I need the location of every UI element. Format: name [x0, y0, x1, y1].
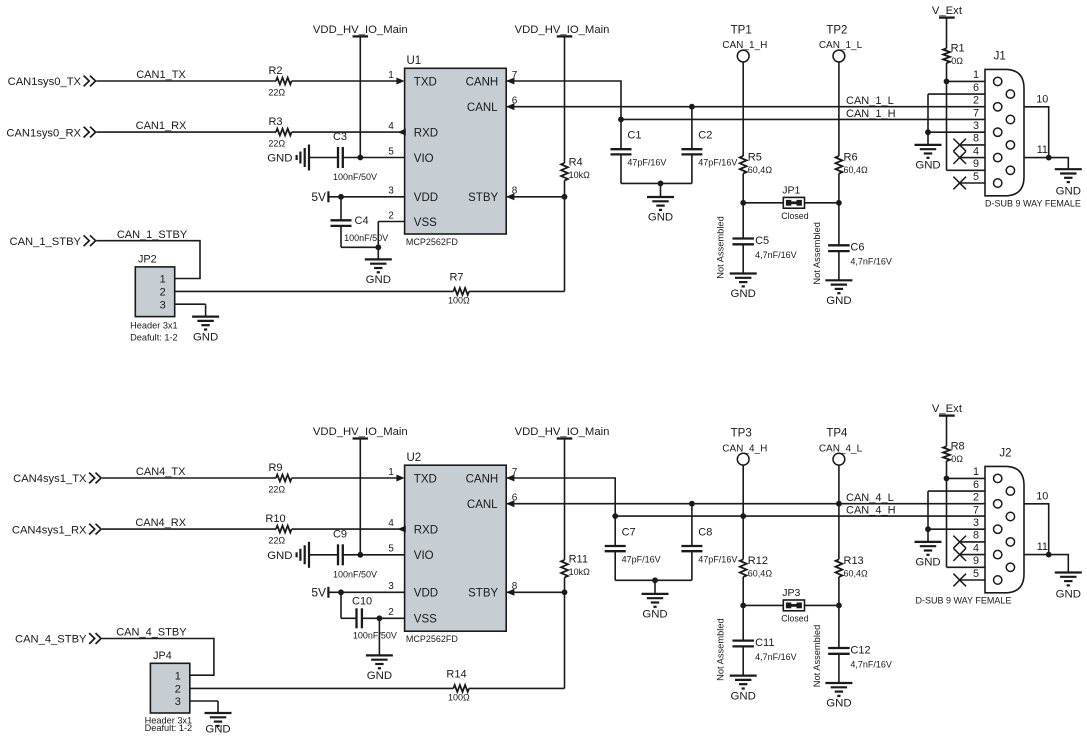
capacitor C5 4,7nF/16V (Not Assembled)	[716, 203, 797, 279]
svg-text:22Ω: 22Ω	[268, 485, 285, 495]
svg-text:CAN_4_L: CAN_4_L	[846, 492, 894, 504]
svg-text:U2: U2	[407, 452, 422, 464]
svg-text:GND: GND	[366, 274, 391, 286]
ground (VSS)	[366, 618, 393, 682]
wire 5V to VDD pin	[328, 196, 404, 198]
junction 5V node	[338, 194, 344, 200]
svg-text:R13: R13	[844, 555, 864, 567]
capacitor C12 4,7nF/16V (Not Assembled)	[812, 605, 892, 687]
svg-text:C2: C2	[698, 130, 712, 142]
svg-text:C12: C12	[850, 644, 870, 656]
svg-text:8: 8	[973, 133, 979, 145]
wire gnd to cap	[309, 554, 338, 556]
svg-text:5V: 5V	[311, 586, 326, 600]
header JP2 3x1	[130, 254, 178, 343]
junction CANH node	[618, 117, 624, 123]
svg-text:CAN4sys1_RX: CAN4sys1_RX	[12, 524, 87, 536]
wire jumper to R ser	[175, 290, 454, 292]
svg-text:4: 4	[388, 518, 394, 529]
resistor R1 0Ω	[943, 43, 965, 66]
wire jumper to R ser	[190, 687, 454, 689]
junction 5V node	[338, 589, 344, 595]
svg-text:4,7nF/16V: 4,7nF/16V	[850, 257, 892, 267]
svg-text:C6: C6	[850, 242, 864, 254]
svg-text:GND: GND	[193, 331, 218, 343]
svg-text:GND: GND	[826, 698, 851, 710]
wire CANH	[506, 478, 615, 516]
wire pin3	[928, 131, 985, 133]
capacitor C6 4,7nF/16V (Not Assembled)	[812, 203, 892, 285]
svg-text:1: 1	[175, 670, 181, 682]
ground (filter caps)	[642, 580, 669, 620]
svg-text:GND: GND	[267, 550, 292, 562]
svg-text:VSS: VSS	[414, 614, 437, 626]
test point TP3	[722, 428, 767, 465]
wire JP pin3	[190, 701, 218, 713]
svg-text:TXD: TXD	[414, 76, 437, 88]
svg-text:U1: U1	[407, 55, 422, 67]
svg-text:RXD: RXD	[414, 525, 438, 537]
svg-text:11: 11	[1037, 144, 1048, 156]
svg-text:10kΩ: 10kΩ	[569, 567, 591, 577]
wire R to RXD	[292, 131, 405, 133]
wire TP3 to R	[742, 465, 744, 559]
svg-text:3: 3	[388, 581, 394, 592]
wire R pull-up to STBY	[564, 577, 566, 592]
ground (term cap L)	[825, 683, 852, 710]
svg-text:CAN1_RX: CAN1_RX	[136, 120, 187, 132]
svg-text:6: 6	[973, 479, 979, 491]
svg-text:CANL: CANL	[467, 499, 498, 511]
resistor R13 60,4Ω	[836, 555, 869, 579]
wire R to RXD	[292, 528, 405, 530]
connector J1 D-SUB 9 WAY FEMALE	[985, 50, 1081, 208]
svg-text:CANH: CANH	[466, 76, 499, 88]
capacitor C2 47pF/16V	[681, 107, 737, 184]
svg-text:4,7nF/16V: 4,7nF/16V	[850, 659, 892, 669]
svg-text:0Ω: 0Ω	[951, 56, 963, 66]
wire rail CAN_1_L	[506, 95, 985, 107]
wire VSS pin	[378, 222, 404, 248]
ground (J1 shield)	[1055, 169, 1082, 197]
wire pin11	[1024, 541, 1068, 572]
svg-text:4: 4	[973, 145, 979, 157]
svg-text:CAN_1_STBY: CAN_1_STBY	[9, 236, 81, 248]
port CAN4sys1_RX	[12, 524, 101, 537]
capacitor C4 100nF/50V	[331, 197, 389, 248]
wire CANH	[506, 81, 621, 119]
power VDD_HV_IO_Main	[313, 426, 408, 555]
no-connect pin5	[953, 574, 985, 587]
capacitor C7 47pF/16V	[605, 516, 661, 580]
junction caps common	[658, 181, 664, 187]
junction TP L rail	[836, 501, 842, 507]
junction VSS node	[375, 244, 381, 250]
svg-text:10kΩ: 10kΩ	[569, 170, 591, 180]
power V_Ext	[932, 5, 963, 48]
svg-text:4,7nF/16V: 4,7nF/16V	[755, 250, 797, 260]
header JP4 3x1	[145, 650, 193, 733]
wire net CAN_1_STBY	[97, 229, 201, 279]
svg-text:CANH: CANH	[466, 473, 499, 485]
junction VIO node	[357, 155, 363, 161]
wire STBY down to R ser	[564, 592, 566, 688]
svg-text:60,4Ω: 60,4Ω	[748, 569, 773, 579]
svg-text:MCP2562FD: MCP2562FD	[406, 237, 459, 247]
test point TP4	[819, 428, 863, 465]
wire R vext to pin1	[946, 461, 948, 478]
junction term H	[740, 603, 746, 609]
ground (filter caps)	[647, 183, 674, 223]
capacitor C9 100nF/50V	[333, 528, 377, 579]
ground (JP pin3)	[192, 317, 219, 344]
svg-text:CAN4_TX: CAN4_TX	[136, 466, 186, 478]
svg-text:47pF/16V: 47pF/16V	[627, 158, 666, 168]
svg-text:5V: 5V	[311, 190, 326, 204]
op-amp transceiver U2 MCP2562FD	[388, 452, 518, 644]
wire pin6	[928, 491, 985, 529]
svg-text:8: 8	[973, 530, 979, 542]
wire R term to jumper	[742, 577, 744, 606]
svg-text:3: 3	[973, 120, 979, 132]
svg-text:5: 5	[973, 171, 979, 183]
ground (J2 pins 3,6)	[915, 529, 942, 568]
svg-text:3: 3	[160, 299, 166, 311]
wire TP2 to R	[838, 62, 840, 156]
svg-text:1: 1	[160, 274, 166, 286]
svg-text:R12: R12	[748, 555, 768, 567]
junction pin3 gnd	[925, 129, 931, 135]
svg-text:CAN_4_STBY: CAN_4_STBY	[15, 634, 87, 646]
svg-text:CAN_4_H: CAN_4_H	[846, 505, 896, 517]
resistor R6 60,4Ω	[836, 151, 869, 175]
no-connect pin4	[953, 548, 985, 561]
svg-text:J2: J2	[999, 447, 1011, 459]
svg-text:Not Assembled: Not Assembled	[812, 625, 822, 688]
no-connect pin5	[953, 177, 985, 190]
ground (term cap H)	[730, 274, 757, 301]
wire cap to VIO pin	[343, 554, 405, 556]
svg-text:JP1: JP1	[782, 185, 800, 197]
svg-text:2: 2	[388, 210, 394, 221]
resistor R4 10kΩ	[561, 157, 590, 181]
svg-text:22Ω: 22Ω	[268, 139, 285, 149]
svg-text:TP2: TP2	[826, 25, 847, 37]
svg-text:2: 2	[973, 95, 979, 107]
wire STBY pin	[506, 196, 564, 198]
wire pin9	[947, 566, 986, 568]
resistor R2 22Ω	[268, 65, 291, 98]
junction STBY node	[562, 589, 568, 595]
no-connect pin8	[953, 139, 985, 152]
svg-text:C9: C9	[333, 528, 347, 540]
svg-text:GND: GND	[205, 724, 230, 736]
svg-text:Not Assembled: Not Assembled	[716, 216, 726, 279]
svg-text:CAN_4_STBY: CAN_4_STBY	[116, 627, 187, 639]
wire pin6	[928, 94, 985, 132]
junction TP H rail	[740, 513, 746, 519]
junction CANH node	[612, 513, 618, 519]
wire Vext bus pin1-pin9	[946, 478, 948, 567]
capacitor C8 47pF/16V	[681, 504, 737, 581]
svg-text:0Ω: 0Ω	[951, 454, 963, 464]
svg-text:MCP2562FD: MCP2562FD	[406, 634, 459, 644]
ground (VIO cap)	[267, 145, 309, 171]
svg-text:GND: GND	[915, 160, 940, 172]
test point TP1	[722, 25, 767, 62]
svg-text:C8: C8	[698, 526, 712, 538]
wire net CAN1_RX	[97, 120, 277, 132]
wire caps common	[621, 182, 692, 184]
capacitor C10 100nF/50V	[341, 592, 397, 640]
wire jumper	[743, 202, 839, 204]
port CAN4sys1_TX	[13, 473, 101, 486]
svg-text:R14: R14	[446, 668, 466, 680]
svg-text:CAN_1_STBY: CAN_1_STBY	[117, 229, 188, 241]
svg-text:VDD_HV_IO_Main: VDD_HV_IO_Main	[313, 24, 408, 36]
wire net CAN4_TX	[102, 466, 276, 478]
power V_Ext	[932, 403, 963, 446]
svg-text:CAN4sys1_TX: CAN4sys1_TX	[13, 473, 87, 485]
junction term L	[836, 603, 842, 609]
junction pin1 node	[944, 476, 950, 482]
resistor R12 60,4Ω	[740, 555, 773, 579]
svg-text:7: 7	[973, 107, 979, 119]
svg-text:D-SUB 9 WAY FEMALE: D-SUB 9 WAY FEMALE	[916, 595, 1012, 605]
port CAN_1_STBY	[9, 235, 95, 248]
svg-text:GND: GND	[648, 212, 673, 224]
wire Vext bus pin1-pin9	[946, 81, 948, 170]
wire pin10	[1024, 490, 1049, 554]
wire net CAN4_RX	[102, 517, 276, 529]
svg-text:R8: R8	[951, 441, 965, 453]
power 5V	[311, 190, 328, 204]
svg-text:100nF/50V: 100nF/50V	[333, 569, 377, 579]
svg-text:100Ω: 100Ω	[448, 693, 470, 703]
capacitor C3 100nF/50V	[333, 131, 377, 182]
svg-text:6: 6	[973, 82, 979, 94]
pin numbers J2	[973, 466, 979, 580]
svg-text:1: 1	[973, 69, 979, 81]
svg-text:3: 3	[973, 517, 979, 529]
svg-text:R11: R11	[569, 554, 588, 566]
svg-text:47pF/16V: 47pF/16V	[698, 554, 737, 564]
svg-text:60,4Ω: 60,4Ω	[844, 165, 869, 175]
svg-text:JP3: JP3	[782, 587, 800, 599]
port CAN1sys0_RX	[6, 127, 95, 140]
wire R vext to pin1	[946, 63, 948, 81]
svg-text:60,4Ω: 60,4Ω	[844, 569, 869, 579]
port CAN1sys0_TX	[8, 76, 96, 89]
svg-text:CANL: CANL	[467, 102, 498, 114]
power VDD_HV_IO_Main (pull-up)	[515, 24, 610, 163]
connector J2 D-SUB 9 WAY FEMALE	[916, 447, 1025, 605]
svg-text:CAN4_RX: CAN4_RX	[135, 517, 186, 529]
wire net CAN1_TX	[97, 69, 277, 81]
svg-text:VDD: VDD	[414, 588, 438, 600]
svg-text:R7: R7	[449, 271, 463, 283]
ground (term cap L)	[825, 280, 852, 307]
junction pin11 node	[1046, 155, 1052, 161]
svg-text:CAN1sys0_RX: CAN1sys0_RX	[6, 127, 81, 139]
svg-text:STBY: STBY	[468, 588, 498, 600]
svg-text:Not Assembled: Not Assembled	[716, 618, 726, 681]
ground (VIO cap)	[267, 542, 309, 568]
wire R term to jumper	[838, 577, 840, 606]
wire STBY down to R ser	[564, 197, 566, 292]
svg-text:C3: C3	[333, 131, 347, 143]
svg-text:Not Assembled: Not Assembled	[812, 222, 822, 285]
jumper JP1 Closed	[781, 185, 808, 222]
ground (VSS)	[365, 247, 392, 286]
svg-text:VDD: VDD	[414, 192, 438, 204]
svg-text:2: 2	[175, 684, 181, 696]
wire R term to jumper	[838, 174, 840, 203]
svg-text:60,4Ω: 60,4Ω	[748, 165, 773, 175]
svg-text:TP1: TP1	[731, 25, 752, 37]
svg-text:JP4: JP4	[153, 650, 172, 662]
svg-text:GND: GND	[826, 295, 851, 307]
svg-text:Deafult: 1-2: Deafult: 1-2	[130, 333, 178, 343]
wire R to TXD	[292, 80, 398, 82]
svg-text:2: 2	[160, 287, 166, 299]
svg-text:C10: C10	[352, 596, 372, 608]
svg-text:GND: GND	[267, 153, 292, 165]
wire R ser to STBY line	[469, 687, 565, 689]
svg-text:22Ω: 22Ω	[268, 88, 285, 98]
svg-text:1: 1	[388, 467, 394, 478]
svg-text:1: 1	[973, 466, 979, 478]
svg-text:CAN_1_H: CAN_1_H	[846, 108, 896, 120]
svg-text:2: 2	[388, 607, 394, 618]
svg-text:R2: R2	[268, 65, 282, 77]
svg-text:TP3: TP3	[731, 428, 752, 440]
svg-text:RXD: RXD	[414, 128, 438, 140]
svg-text:1: 1	[388, 70, 394, 81]
svg-text:3: 3	[175, 696, 181, 708]
wire R to TXD	[292, 477, 398, 479]
wire JP pin3	[175, 304, 206, 316]
svg-text:2: 2	[973, 492, 979, 504]
svg-text:5: 5	[388, 146, 394, 157]
svg-text:100nF/50V: 100nF/50V	[344, 233, 388, 243]
junction pin11 node	[1046, 552, 1052, 558]
wire caps common	[615, 579, 692, 581]
wire pin3	[928, 528, 985, 530]
pin numbers J1	[973, 69, 979, 183]
svg-text:R9: R9	[268, 462, 282, 474]
svg-text:R5: R5	[748, 151, 762, 163]
wire R pull-up to STBY	[564, 180, 566, 196]
junction term L	[836, 200, 842, 206]
resistor R11 10kΩ	[561, 554, 590, 578]
svg-text:9: 9	[973, 555, 979, 567]
resistor R8 0Ω	[943, 441, 965, 464]
svg-text:C5: C5	[755, 235, 769, 247]
svg-text:47pF/16V: 47pF/16V	[622, 554, 661, 564]
svg-text:TP4: TP4	[826, 428, 848, 440]
wire TP1 to R	[742, 62, 744, 156]
junction CANL node	[689, 104, 695, 110]
power VDD_HV_IO_Main (pull-up)	[515, 426, 610, 560]
wire rail CAN_4_L	[506, 492, 985, 504]
svg-text:CAN_1_L: CAN_1_L	[819, 40, 863, 51]
resistor R7 100Ω	[448, 271, 470, 305]
ground (J1 pins 3,6)	[915, 132, 942, 171]
svg-text:GND: GND	[642, 609, 667, 621]
wire pin11	[1024, 144, 1068, 169]
svg-text:VDD_HV_IO_Main: VDD_HV_IO_Main	[515, 426, 610, 438]
junction STBY node	[562, 194, 568, 200]
svg-text:CAN_1_L: CAN_1_L	[846, 95, 894, 107]
junction VSS node	[377, 615, 383, 621]
svg-text:V_Ext: V_Ext	[932, 5, 963, 17]
ground (JP pin3)	[205, 713, 232, 736]
resistor R10 22Ω	[265, 513, 291, 546]
resistor R5 60,4Ω	[740, 151, 773, 175]
capacitor C11 4,7nF/16V (Not Assembled)	[716, 605, 797, 680]
wire jumper	[743, 604, 839, 606]
resistor R3 22Ω	[268, 116, 291, 149]
svg-text:22Ω: 22Ω	[268, 536, 285, 546]
svg-text:GND: GND	[731, 690, 756, 702]
svg-text:10: 10	[1036, 490, 1048, 502]
wire rail CAN_4_H	[615, 505, 985, 517]
ground (term cap H)	[730, 676, 757, 703]
svg-text:GND: GND	[731, 288, 756, 300]
wire gnd to cap	[309, 157, 338, 159]
no-connect pin4	[953, 151, 985, 164]
svg-text:STBY: STBY	[468, 192, 498, 204]
svg-text:10: 10	[1036, 93, 1048, 105]
svg-text:C11: C11	[755, 637, 774, 649]
svg-text:VIO: VIO	[414, 550, 434, 562]
wire rail CAN_1_H	[621, 108, 985, 120]
junction caps common	[652, 577, 658, 583]
power 5V	[311, 586, 328, 600]
svg-text:R3: R3	[268, 116, 282, 128]
svg-text:100nF/50V: 100nF/50V	[333, 172, 377, 182]
resistor R9 22Ω	[268, 462, 291, 495]
wire pin1	[947, 477, 986, 479]
svg-text:CAN_4_L: CAN_4_L	[819, 443, 863, 454]
svg-text:VIO: VIO	[414, 153, 434, 165]
wire STBY pin	[506, 591, 564, 593]
svg-text:GND: GND	[1056, 589, 1081, 601]
wire net CAN_4_STBY	[102, 627, 214, 676]
wire pin9	[947, 169, 986, 171]
svg-text:CAN1sys0_TX: CAN1sys0_TX	[8, 76, 82, 88]
svg-text:C7: C7	[622, 526, 636, 538]
svg-text:4: 4	[388, 121, 394, 132]
svg-text:100Ω: 100Ω	[448, 296, 470, 306]
svg-text:9: 9	[973, 158, 979, 170]
svg-text:VDD_HV_IO_Main: VDD_HV_IO_Main	[313, 426, 408, 438]
power VDD_HV_IO_Main	[313, 24, 408, 158]
svg-text:R4: R4	[569, 157, 583, 169]
svg-text:5: 5	[388, 544, 394, 555]
svg-text:JP2: JP2	[138, 254, 157, 266]
svg-text:4: 4	[973, 542, 979, 554]
svg-text:GND: GND	[915, 557, 940, 569]
svg-text:Header 3x1: Header 3x1	[130, 320, 178, 330]
svg-text:R10: R10	[265, 513, 285, 525]
wire pin1	[947, 80, 986, 82]
junction CANL node	[689, 501, 695, 507]
wire 5V to VDD pin	[328, 591, 404, 593]
svg-text:11: 11	[1037, 541, 1048, 553]
svg-text:5: 5	[973, 568, 979, 580]
